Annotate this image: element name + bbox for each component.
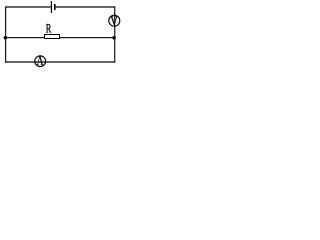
- battery cell: short plate: [54, 4, 56, 10]
- svg-text:V: V: [110, 14, 118, 28]
- voltmeter circle: [109, 15, 120, 26]
- wire top-right segment: [56, 6, 116, 7]
- svg-text:R: R: [46, 21, 52, 35]
- ammeter circle: [35, 56, 46, 67]
- wire bottom horizontal: [5, 61, 115, 62]
- battery cell: long plate: [51, 1, 52, 13]
- node junction dot right: [112, 36, 116, 40]
- wire middle horizontal: [5, 37, 115, 38]
- svg-text:A: A: [37, 53, 44, 68]
- node junction dot left: [4, 36, 8, 40]
- resistor R box: [45, 35, 60, 39]
- wire right vertical: [114, 6, 115, 62]
- wire left vertical: [5, 6, 6, 62]
- wire top-left segment: [5, 6, 51, 7]
- background: [0, 0, 121, 72]
